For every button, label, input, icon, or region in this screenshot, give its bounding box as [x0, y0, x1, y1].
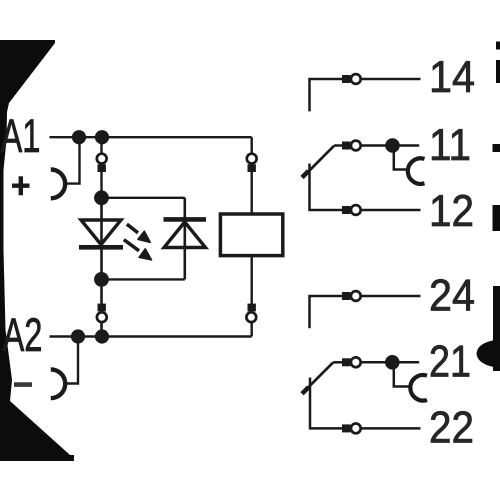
- wire 11 left: [334, 144, 343, 147]
- junction dot A2/led-branch: [95, 329, 109, 343]
- plug contact: pin (22): [342, 424, 350, 432]
- svg-text:A1: A1: [1, 110, 41, 163]
- wire diode vertical: [184, 198, 187, 280]
- plug contact: pin (24): [342, 292, 350, 300]
- wire coil branch to coil: [250, 171, 252, 214]
- plug contact: pin (led branch bottom): [98, 304, 106, 312]
- relay coil K1: [220, 214, 282, 256]
- wire coil branch to A2: [250, 323, 252, 337]
- plug contact: pin (coil branch bottom): [248, 304, 256, 312]
- plug contact: socket ring (21): [351, 357, 361, 367]
- svg-text:21: 21: [429, 338, 471, 387]
- plug contact: pin (coil branch top): [248, 164, 256, 172]
- LED emission arrow 2: [124, 240, 152, 260]
- minus sign: [14, 382, 32, 387]
- junction dot A2/minus: [71, 329, 85, 343]
- plug contact: socket ring (coil branch bottom): [246, 312, 256, 322]
- freewheeling diode D2 cathode bar: [164, 217, 207, 222]
- junction dot loop top: [94, 190, 109, 205]
- LED D1 cathode bar: [79, 245, 123, 250]
- wire led branch to loop: [100, 171, 102, 198]
- plug contact: socket ring (11): [351, 141, 361, 151]
- wire coil branch upper stub: [250, 137, 252, 152]
- svg-text:A2: A2: [3, 309, 43, 362]
- LED emission arrow 1: [127, 224, 150, 242]
- plug contact: pin (21): [342, 358, 350, 366]
- contact 11 lever end tick: [302, 171, 309, 178]
- wire 22 to terminal: [362, 427, 421, 430]
- svg-text:12: 12: [429, 187, 474, 236]
- plug contact: pin (11): [342, 142, 350, 150]
- clamp arc at - terminal: [51, 369, 65, 398]
- wire diode loop bottom: [102, 278, 185, 280]
- junction dot 11: [385, 138, 400, 153]
- freewheeling diode D2 triangle: [164, 222, 206, 248]
- junction dot loop bottom: [94, 272, 109, 287]
- svg-text:24: 24: [429, 271, 475, 320]
- svg-text:14: 14: [429, 53, 475, 102]
- wire 24 to terminal: [362, 295, 421, 298]
- wire led branch upper stub: [100, 137, 102, 152]
- wire A2 horizontal: [50, 335, 252, 337]
- wire diode loop top: [102, 197, 185, 199]
- LED D1 triangle: [81, 220, 121, 245]
- contact 24: corner wire and stub: [310, 296, 343, 328]
- junction dot A1/plus: [72, 130, 86, 144]
- scan artifact top-left black triangle and left-edge strip: [0, 40, 74, 461]
- contact 11: switch lever: [303, 146, 334, 177]
- wire 11 to terminal: [362, 144, 419, 147]
- plug contact: pin (12): [342, 206, 350, 214]
- contact 21 lever end tick: [302, 387, 309, 394]
- plug contact: socket ring (12): [351, 205, 361, 215]
- plug contact: pin (upper led branch): [98, 164, 106, 172]
- contact 21: switch lever: [303, 363, 333, 393]
- plug contact: pin (14): [342, 75, 350, 83]
- wire - stub to clamp: [64, 337, 78, 384]
- plug contact: socket ring (led branch bottom): [97, 312, 107, 322]
- svg-text:11: 11: [429, 121, 471, 170]
- junction dot 21: [385, 355, 400, 370]
- wire 21 test stub: [394, 362, 411, 386]
- wire 14 to terminal: [362, 78, 421, 81]
- junction dot A1/led-branch: [95, 130, 109, 144]
- wire 12 to terminal: [362, 209, 421, 212]
- wire + stub to clamp: [65, 137, 80, 183]
- wire coil bottom: [250, 256, 252, 304]
- wire led branch lower stub: [100, 279, 103, 304]
- scan artifact right-edge marks: [496, 42, 500, 50]
- wire A1 horizontal: [50, 136, 252, 138]
- plus sign: [12, 176, 30, 195]
- contact 12: NC branch vertical: [310, 164, 343, 211]
- plug contact: socket ring (24): [351, 291, 361, 301]
- contact 22: NC branch vertical: [310, 378, 343, 429]
- plug contact: socket ring (upper led branch): [97, 154, 107, 164]
- wire led branch to A2: [100, 323, 103, 337]
- wire 21 left: [333, 361, 343, 364]
- wire 11 test stub: [394, 146, 409, 170]
- clamp arc at 11: [408, 158, 425, 184]
- clamp arc at 21: [410, 375, 427, 401]
- svg-text:22: 22: [429, 403, 474, 452]
- plug contact: socket ring (coil branch top): [247, 154, 257, 164]
- plug contact: socket ring (14): [351, 74, 361, 84]
- plug contact: socket ring (22): [351, 424, 361, 434]
- clamp arc at + terminal: [51, 170, 65, 199]
- wire 21 to terminal: [362, 361, 419, 364]
- contact 14: corner wire and stub: [310, 79, 343, 111]
- wire led vertical: [100, 198, 103, 280]
